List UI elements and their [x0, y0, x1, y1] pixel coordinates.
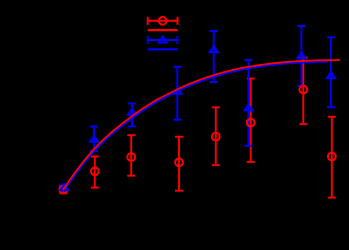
red marker 1 (open circle) — [59, 186, 67, 194]
blue marker 8 (triangle) — [327, 72, 335, 78]
blue marker 7 (triangle) — [297, 52, 305, 58]
blue point 5 error bar — [213, 31, 215, 82]
legend: red errorbar entry — [148, 20, 178, 22]
red marker 4 (open circle) — [175, 158, 183, 166]
red marker 8 (open circle) — [328, 153, 336, 161]
blue point 7 error bar — [300, 26, 302, 86]
blue point 8 error bar — [330, 37, 332, 107]
legend: blue errorbar entry — [148, 39, 178, 41]
blue marker 2 (triangle) — [90, 136, 98, 142]
red marker 5 (open circle) — [212, 133, 220, 141]
red point 1 error bar — [62, 186, 64, 194]
blue marker 3 (triangle) — [128, 109, 136, 115]
red point 5 error bar — [215, 107, 217, 165]
red point 8 error bar — [331, 117, 333, 198]
red marker 3 (open circle) — [127, 153, 135, 161]
red marker 2 (open circle) — [91, 167, 99, 175]
red fit curve — [63, 60, 340, 190]
blue marker 4 (triangle) — [173, 88, 181, 94]
blue marker 6 (triangle) — [244, 105, 252, 111]
legend: blue triangle marker — [159, 37, 167, 43]
legend: blue line entry — [148, 48, 178, 50]
legend: red line entry — [148, 29, 178, 31]
blue point 1 error bar — [63, 185, 65, 191]
red point 7 error bar — [302, 58, 304, 125]
red point 4 error bar — [178, 137, 180, 191]
blue marker 5 (triangle) — [210, 46, 218, 52]
red marker 7 (open circle) — [299, 86, 307, 94]
red point 6 error bar — [250, 79, 252, 162]
blue point 4 error bar — [176, 67, 178, 120]
blue marker 1 (triangle) — [60, 184, 68, 190]
red point 3 error bar — [130, 135, 132, 176]
blue fit curve — [63, 62, 328, 190]
blue point 3 error bar — [131, 104, 133, 127]
blue point 6 error bar — [247, 60, 249, 146]
red point 2 error bar — [94, 157, 96, 188]
red marker 6 (open circle) — [247, 119, 255, 127]
blue point 2 error bar — [93, 127, 95, 152]
